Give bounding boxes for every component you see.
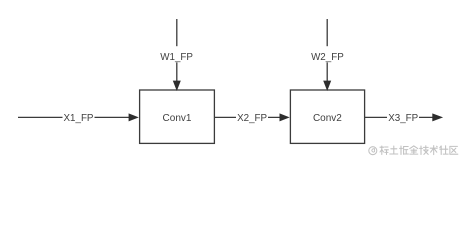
- 区: [450, 146, 458, 154]
- 社: [440, 146, 448, 155]
- 金: [410, 146, 418, 154]
- watermark "@稀土掘金技术社区" drawn as vector strokes: [369, 146, 458, 155]
- 掘: [400, 146, 409, 155]
- label W1_FP: [160, 46, 195, 63]
- 术: [430, 146, 437, 155]
- svg-text:X1_FP: X1_FP: [64, 113, 94, 124]
- block Conv2: [290, 90, 364, 143]
- label X3_FP: [387, 109, 419, 125]
- svg-text:X3_FP: X3_FP: [388, 113, 418, 124]
- svg-text:W1_FP: W1_FP: [160, 52, 193, 63]
- 土: [390, 146, 398, 154]
- label X2_FP: [236, 109, 268, 125]
- 技: [420, 146, 429, 155]
- wire X1 (into Conv1): [18, 113, 139, 121]
- svg-text:X2_FP: X2_FP: [237, 113, 267, 124]
- @: [369, 147, 377, 155]
- svg-text:Conv1: Conv1: [163, 113, 192, 124]
- wire W2 (vertical into Conv2): [323, 19, 331, 91]
- 稀: [380, 146, 388, 155]
- label X1_FP: [63, 109, 95, 125]
- block Conv1: [140, 90, 215, 143]
- svg-text:Conv2: Conv2: [313, 113, 342, 124]
- label W2_FP: [310, 46, 345, 63]
- wire X3 (out of Conv2): [365, 113, 443, 121]
- wire W1 (vertical into Conv1): [173, 19, 181, 91]
- wire X2 (Conv1 to Conv2): [215, 113, 290, 121]
- svg-text:W2_FP: W2_FP: [311, 52, 344, 63]
